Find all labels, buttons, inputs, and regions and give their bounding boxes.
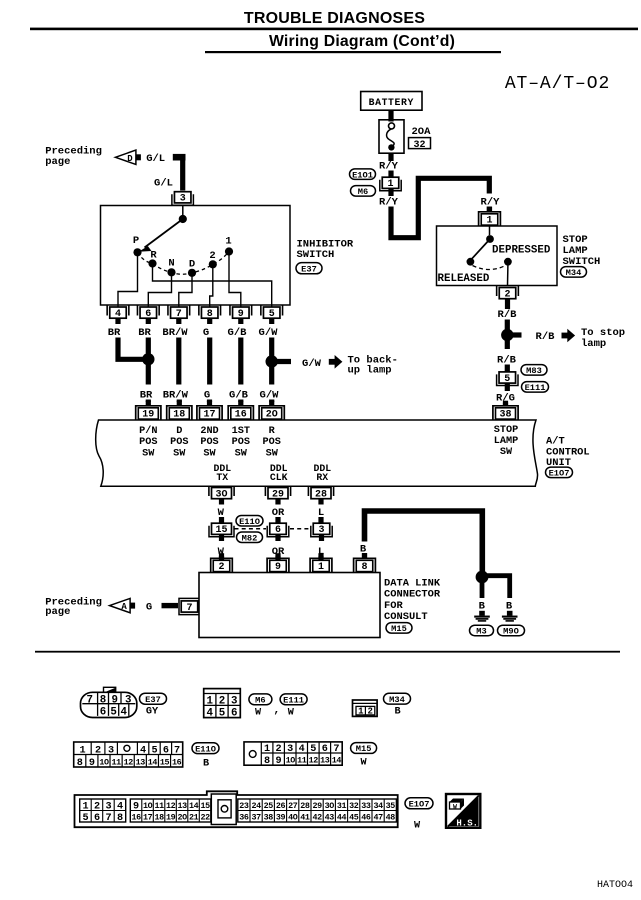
svg-text:SW: SW bbox=[235, 448, 248, 459]
wire G/L elbow bbox=[173, 154, 186, 191]
connector M15 oval label bbox=[351, 743, 377, 755]
wire junction down bbox=[505, 339, 510, 349]
svg-text:7: 7 bbox=[105, 813, 111, 824]
page arrow A bbox=[110, 598, 136, 612]
connector 1 E101-M6 bbox=[380, 177, 401, 191]
svg-text:3O: 3O bbox=[215, 489, 227, 500]
svg-text:1: 1 bbox=[387, 179, 393, 190]
svg-text:9: 9 bbox=[133, 801, 139, 812]
header rule 1 bbox=[30, 28, 638, 31]
inhibitor switch pin 7 bbox=[168, 306, 190, 325]
inhibitor switch S1 box bbox=[101, 206, 291, 306]
inhibitor switch pin 4 bbox=[107, 306, 129, 325]
svg-text:29: 29 bbox=[272, 489, 284, 500]
svg-text:35: 35 bbox=[386, 801, 396, 811]
svg-text:W: W bbox=[414, 821, 421, 832]
wire 1 contact to pin 9 bbox=[229, 252, 241, 308]
svg-text:21: 21 bbox=[189, 812, 199, 822]
svg-text:42: 42 bbox=[312, 812, 322, 822]
svg-text:31: 31 bbox=[337, 801, 347, 811]
svg-text:M15: M15 bbox=[391, 624, 407, 634]
svg-text:11: 11 bbox=[154, 801, 164, 811]
labels W , W bbox=[255, 705, 295, 719]
wire label L bbox=[318, 507, 324, 519]
svg-text:22: 22 bbox=[200, 812, 210, 822]
page code AT-A/T-02 bbox=[505, 74, 610, 94]
svg-text:M83: M83 bbox=[526, 366, 542, 376]
svg-text:1: 1 bbox=[318, 562, 324, 573]
svg-text:25: 25 bbox=[264, 801, 274, 811]
wire labels BR BR/W G G/B G/W row 2 bbox=[140, 390, 279, 402]
position travel arc dashed bbox=[138, 252, 230, 275]
wire pin 9 G/B down bbox=[238, 338, 243, 385]
svg-text:32: 32 bbox=[349, 801, 359, 811]
A/T control unit pin 29 bbox=[265, 486, 290, 505]
svg-text:2: 2 bbox=[219, 696, 225, 708]
svg-text:2OA: 2OA bbox=[412, 126, 432, 138]
arrow to stop lamp bbox=[562, 329, 576, 343]
label INHIBITOR SWITCH bbox=[297, 239, 354, 261]
svg-text:19: 19 bbox=[166, 812, 176, 822]
svg-text:48: 48 bbox=[386, 812, 396, 822]
wire pin 6 BR down bbox=[146, 338, 151, 385]
A/T control unit pin 18 bbox=[167, 401, 192, 421]
fuse label 20A bbox=[412, 126, 432, 138]
svg-text:1O: 1O bbox=[143, 801, 153, 811]
svg-text:4: 4 bbox=[140, 746, 146, 757]
wire pin 1 to common contact bbox=[489, 226, 491, 235]
svg-text:TROUBLE DIAGNOSES: TROUBLE DIAGNOSES bbox=[244, 10, 425, 27]
svg-text:M3: M3 bbox=[476, 627, 486, 637]
header subtitle Wiring Diagram (Contd) bbox=[269, 33, 455, 50]
svg-text:5: 5 bbox=[269, 309, 275, 320]
wire label B bbox=[360, 543, 367, 555]
svg-text:POS: POS bbox=[232, 437, 250, 448]
wire label OR bbox=[272, 546, 285, 558]
svg-text:5: 5 bbox=[82, 813, 88, 824]
svg-text:N: N bbox=[168, 258, 174, 270]
svg-text:39: 39 bbox=[276, 812, 286, 822]
svg-text:43: 43 bbox=[325, 812, 335, 822]
wire label R/B bbox=[536, 331, 556, 343]
wire pin 7 BR/W down bbox=[176, 338, 181, 385]
svg-text:12: 12 bbox=[124, 757, 134, 767]
connector E111 oval label bbox=[280, 694, 307, 706]
svg-text:38: 38 bbox=[264, 812, 274, 822]
svg-text:12: 12 bbox=[166, 801, 176, 811]
connector M3 oval bbox=[470, 625, 494, 636]
wire battery to fuse bbox=[388, 110, 393, 121]
connector E107 oval label bbox=[405, 798, 433, 810]
section separator rule bbox=[35, 651, 620, 653]
svg-text:G: G bbox=[203, 327, 209, 339]
stop lamp switch arm bbox=[471, 239, 490, 260]
svg-text:A: A bbox=[121, 602, 127, 612]
svg-text:23: 23 bbox=[239, 801, 249, 811]
svg-text:3: 3 bbox=[105, 801, 111, 812]
wire label W bbox=[218, 546, 225, 558]
svg-text:1O: 1O bbox=[286, 756, 296, 766]
svg-text:28: 28 bbox=[300, 801, 310, 811]
wire pin 4 BR to junction bbox=[118, 338, 145, 360]
wire fuse to R/Y bbox=[388, 153, 393, 161]
svg-text:1: 1 bbox=[82, 801, 88, 812]
wire battery feed to stop lamp switch bbox=[391, 178, 489, 237]
svg-text:8: 8 bbox=[207, 309, 213, 320]
position contacts dots bbox=[133, 247, 233, 277]
svg-text:14: 14 bbox=[189, 801, 199, 811]
data link connector pin 7 bbox=[179, 598, 199, 614]
svg-text:36: 36 bbox=[239, 812, 249, 822]
junction node BR bbox=[142, 353, 154, 365]
label A/T CONTROL UNIT bbox=[546, 436, 590, 469]
svg-text:9: 9 bbox=[275, 562, 281, 573]
svg-text:15: 15 bbox=[215, 525, 227, 536]
svg-text:8: 8 bbox=[100, 695, 106, 707]
label DATA LINK CONNECTOR FOR CONSULT bbox=[384, 577, 441, 623]
svg-text:6: 6 bbox=[100, 707, 106, 719]
svg-text:6: 6 bbox=[275, 525, 281, 536]
svg-text:BR: BR bbox=[138, 327, 151, 339]
wire R/G to pin 38 bbox=[503, 403, 508, 407]
svg-text:1: 1 bbox=[225, 236, 231, 248]
svg-text:15: 15 bbox=[200, 801, 210, 811]
svg-text:BR/W: BR/W bbox=[162, 327, 188, 339]
A/T control unit pin 28 bbox=[308, 486, 333, 505]
svg-text:W: W bbox=[453, 803, 457, 810]
svg-text:P: P bbox=[133, 235, 139, 247]
svg-text:46: 46 bbox=[361, 812, 371, 822]
junction node stop lamp feed bbox=[501, 329, 513, 341]
svg-text:2: 2 bbox=[95, 746, 101, 757]
wire R/B to junction bbox=[505, 320, 510, 332]
wire label R/Y bbox=[379, 161, 399, 173]
svg-text:SW: SW bbox=[266, 448, 279, 459]
connector E110 oval label bbox=[192, 743, 219, 755]
data link connector pin 2 bbox=[211, 553, 233, 573]
connector M83 oval bbox=[521, 365, 547, 376]
svg-text:1O: 1O bbox=[99, 757, 109, 767]
wire R contact to pin 5 bbox=[153, 264, 272, 308]
svg-text:M34: M34 bbox=[566, 268, 582, 278]
connector E107 oval bbox=[546, 467, 573, 478]
svg-text:SW: SW bbox=[203, 448, 216, 459]
fuse F1 20A 32 bbox=[379, 120, 404, 153]
A/T control unit pin 20 bbox=[259, 401, 284, 421]
svg-text:2: 2 bbox=[218, 562, 224, 573]
svg-text:,: , bbox=[273, 705, 280, 717]
svg-text:H.S.: H.S. bbox=[456, 818, 478, 828]
wire stubs to DLC pins bbox=[222, 556, 322, 560]
svg-text:R: R bbox=[269, 426, 276, 437]
svg-text:DATA LINK: DATA LINK bbox=[384, 577, 441, 589]
svg-text:41: 41 bbox=[300, 812, 310, 822]
data link connector pin 9 bbox=[267, 553, 289, 573]
connector E37 oval label bbox=[140, 693, 167, 705]
inhibitor switch pin 8 bbox=[199, 306, 221, 325]
svg-text:SWITCH: SWITCH bbox=[297, 249, 335, 261]
joint dashed 6 to 3 bbox=[235, 528, 311, 530]
svg-text:3O: 3O bbox=[325, 801, 335, 811]
label W bbox=[361, 758, 368, 769]
svg-text:STOP: STOP bbox=[494, 425, 518, 436]
wire junction down bbox=[480, 581, 485, 598]
svg-text:E11O: E11O bbox=[195, 744, 216, 754]
junction node G/W bbox=[266, 355, 278, 367]
connector E111 oval bbox=[522, 382, 549, 393]
wire P contact to pin 4 bbox=[118, 252, 138, 307]
label GY bbox=[146, 707, 159, 718]
label STOP LAMP SW bbox=[494, 425, 518, 458]
wire stub to stop lamp bbox=[507, 332, 521, 337]
svg-text:DEPRESSED: DEPRESSED bbox=[492, 244, 551, 256]
wire pin 3 to pivot bbox=[182, 206, 184, 217]
svg-text:9: 9 bbox=[238, 309, 244, 320]
svg-text:E37: E37 bbox=[145, 695, 161, 705]
svg-text:E1O1: E1O1 bbox=[352, 170, 373, 180]
svg-text:G: G bbox=[146, 602, 152, 614]
svg-text:47: 47 bbox=[373, 812, 383, 822]
svg-text:B: B bbox=[479, 600, 486, 612]
svg-text:44: 44 bbox=[337, 812, 347, 822]
ground M90 bbox=[502, 611, 518, 621]
stop lamp switch S2 box bbox=[437, 226, 558, 286]
svg-text:6: 6 bbox=[94, 813, 100, 824]
svg-text:G/W: G/W bbox=[302, 358, 322, 370]
A/T control unit pin 16 bbox=[228, 401, 253, 421]
svg-text:W: W bbox=[255, 708, 262, 719]
svg-text:3: 3 bbox=[231, 696, 237, 708]
svg-text:2: 2 bbox=[367, 707, 372, 717]
wire D contact to pin 7 bbox=[179, 273, 192, 307]
svg-text:2O: 2O bbox=[266, 410, 278, 421]
label B bbox=[203, 758, 209, 769]
svg-text:8: 8 bbox=[77, 758, 83, 769]
wire connector 5 down bbox=[505, 383, 510, 391]
svg-text:POS: POS bbox=[200, 437, 218, 448]
wire label G/W bbox=[302, 358, 322, 370]
connector 3 E110-M82 bbox=[311, 523, 332, 537]
svg-text:5: 5 bbox=[110, 707, 116, 719]
wire label B right ground bbox=[506, 600, 513, 612]
svg-text:5: 5 bbox=[151, 746, 157, 757]
svg-text:14: 14 bbox=[332, 756, 342, 766]
svg-text:7: 7 bbox=[333, 744, 339, 755]
svg-text:6: 6 bbox=[231, 708, 237, 720]
svg-text:8: 8 bbox=[117, 813, 123, 824]
svg-text:16: 16 bbox=[131, 812, 141, 822]
wire stub to A/T control unit bbox=[177, 400, 182, 403]
connector 6 E110-M82 bbox=[267, 523, 289, 537]
wire stub to A/T control unit bbox=[238, 400, 243, 403]
svg-text:AT–A/T–O2: AT–A/T–O2 bbox=[505, 74, 610, 94]
svg-text:5: 5 bbox=[504, 374, 510, 385]
wire stub to DLC pin 7 bbox=[162, 603, 179, 608]
connector face M6/E111 bbox=[204, 689, 241, 720]
data link connector pin 1 bbox=[310, 553, 332, 573]
released contact bbox=[467, 258, 475, 266]
label Preceding page (bottom) bbox=[45, 597, 102, 619]
depressed contact bbox=[504, 258, 512, 266]
connector face E110 bbox=[74, 742, 183, 769]
A/T control unit pin 17 bbox=[197, 401, 222, 421]
stop lamp switch pin 1 bbox=[479, 207, 501, 227]
svg-text:3: 3 bbox=[125, 695, 131, 707]
wire R/Y to stop lamp switch pin 1 bbox=[487, 207, 492, 212]
svg-text:CONNECTOR: CONNECTOR bbox=[384, 589, 441, 601]
svg-text:18: 18 bbox=[173, 410, 185, 421]
svg-text:W: W bbox=[288, 708, 295, 719]
position labels P R N D 2 1 bbox=[133, 235, 232, 271]
wire pin 2 down bbox=[505, 305, 510, 310]
A/T control unit pin 38 bbox=[493, 401, 518, 421]
connector M6 oval bbox=[351, 186, 376, 197]
wire pin 5 G/W down bbox=[269, 338, 274, 385]
wire label W bbox=[218, 507, 225, 519]
svg-text:27: 27 bbox=[288, 801, 298, 811]
svg-text:CLK: CLK bbox=[270, 472, 288, 483]
connector 15 E110-M82 bbox=[209, 523, 234, 537]
svg-text:3: 3 bbox=[287, 744, 293, 755]
svg-text:FOR: FOR bbox=[384, 600, 403, 612]
svg-text:M6: M6 bbox=[358, 187, 368, 197]
labels P/N POS SW etc bbox=[139, 425, 281, 459]
travel arc dashed bbox=[473, 266, 506, 270]
svg-text:3: 3 bbox=[180, 194, 186, 205]
svg-text:M6: M6 bbox=[255, 696, 265, 706]
wire stub to back-up lamp bbox=[272, 359, 291, 364]
svg-text:32: 32 bbox=[413, 140, 425, 151]
label To back-up lamp bbox=[348, 354, 398, 376]
wire label OR bbox=[272, 507, 285, 519]
wire stub to A/T control unit bbox=[269, 400, 274, 403]
label Preceding page (top) bbox=[45, 145, 102, 168]
svg-text:12: 12 bbox=[309, 756, 319, 766]
svg-text:38: 38 bbox=[499, 410, 511, 421]
svg-text:5: 5 bbox=[310, 744, 316, 755]
connector E101 oval bbox=[350, 169, 376, 180]
wire R/Y to connector 1 bbox=[388, 171, 393, 179]
connector M34 oval bbox=[561, 267, 587, 278]
svg-text:13: 13 bbox=[320, 756, 330, 766]
svg-text:4: 4 bbox=[120, 707, 127, 719]
wire label B left ground bbox=[479, 600, 486, 612]
connector M6 oval label bbox=[249, 694, 272, 706]
label RELEASED bbox=[438, 273, 490, 285]
connector face E107 (A/T control unit) bbox=[75, 791, 398, 827]
wire label G/L bbox=[146, 153, 165, 165]
connector M15 oval bbox=[386, 623, 412, 634]
svg-text:6: 6 bbox=[145, 309, 151, 320]
svg-text:page: page bbox=[45, 606, 70, 618]
svg-text:13: 13 bbox=[177, 801, 187, 811]
wire 2 contact to pin 8 bbox=[210, 264, 213, 307]
svg-text:D: D bbox=[176, 426, 182, 437]
svg-text:5: 5 bbox=[219, 708, 225, 720]
svg-text:M9O: M9O bbox=[503, 627, 519, 637]
svg-text:RELEASED: RELEASED bbox=[438, 273, 490, 285]
wire label G/L bbox=[154, 177, 173, 189]
svg-text:16: 16 bbox=[172, 757, 182, 767]
data link connector box bbox=[199, 573, 380, 638]
wire junction branch right bbox=[482, 576, 510, 598]
footer code HAT004 bbox=[597, 880, 633, 891]
header rule 2 bbox=[205, 51, 501, 53]
svg-text:E11O: E11O bbox=[239, 517, 260, 527]
svg-text:2O: 2O bbox=[177, 812, 187, 822]
connector face E37 (inhibitor switch) bbox=[81, 687, 137, 718]
svg-text:7: 7 bbox=[186, 603, 192, 614]
svg-text:E37: E37 bbox=[301, 265, 317, 275]
svg-text:E1O7: E1O7 bbox=[549, 468, 570, 478]
svg-text:D: D bbox=[127, 154, 133, 164]
svg-text:8: 8 bbox=[361, 562, 367, 573]
svg-text:13: 13 bbox=[136, 757, 146, 767]
svg-text:16: 16 bbox=[235, 410, 247, 421]
svg-text:17: 17 bbox=[143, 812, 153, 822]
svg-text:11: 11 bbox=[111, 757, 121, 767]
wire stubs 30-15 29-6 28-3 bbox=[222, 517, 322, 523]
inhibitor switch pin 9 bbox=[230, 306, 252, 325]
svg-text:1: 1 bbox=[264, 744, 270, 755]
svg-text:3: 3 bbox=[108, 746, 114, 757]
svg-text:BATTERY: BATTERY bbox=[369, 97, 414, 108]
svg-text:R/B: R/B bbox=[498, 309, 518, 321]
svg-text:G/B: G/B bbox=[228, 327, 248, 339]
connector 3 inhibitor feed bbox=[172, 192, 194, 206]
svg-text:BR: BR bbox=[108, 327, 121, 339]
svg-text:1: 1 bbox=[79, 746, 85, 757]
svg-text:R/B: R/B bbox=[536, 331, 556, 343]
ground M3 bbox=[474, 611, 490, 621]
connector 5 M83-E111 bbox=[497, 372, 518, 386]
svg-text:B: B bbox=[203, 758, 209, 769]
wire label R/B bbox=[498, 309, 518, 321]
battery B1 bbox=[361, 92, 422, 111]
svg-text:33: 33 bbox=[361, 801, 371, 811]
inhibitor switch pin 5 bbox=[261, 306, 283, 325]
data link connector pin 8 bbox=[354, 553, 376, 573]
svg-text:page: page bbox=[45, 156, 70, 168]
svg-text:28: 28 bbox=[315, 489, 327, 500]
wire label L bbox=[318, 546, 324, 558]
wire label R/Y bbox=[481, 197, 501, 209]
svg-text:3: 3 bbox=[318, 525, 324, 536]
svg-text:14: 14 bbox=[148, 757, 158, 767]
connector E110 oval bbox=[236, 516, 263, 527]
wire label R/B bbox=[497, 355, 517, 367]
svg-text:15: 15 bbox=[160, 757, 170, 767]
svg-text:29: 29 bbox=[312, 801, 322, 811]
inhibitor pivot contact bbox=[179, 215, 187, 223]
page arrow D bbox=[115, 150, 140, 164]
svg-text:B: B bbox=[506, 600, 513, 612]
inhibitor switch pin 6 bbox=[137, 306, 159, 325]
wire label R/G bbox=[496, 393, 515, 405]
svg-text:P/N: P/N bbox=[139, 425, 157, 437]
svg-text:9: 9 bbox=[89, 758, 95, 769]
svg-text:45: 45 bbox=[349, 812, 359, 822]
svg-text:2: 2 bbox=[504, 289, 510, 300]
svg-text:M15: M15 bbox=[356, 744, 372, 754]
connector M90 oval bbox=[498, 625, 525, 636]
svg-text:7: 7 bbox=[174, 746, 180, 757]
svg-text:17: 17 bbox=[203, 410, 215, 421]
svg-text:E111: E111 bbox=[525, 383, 546, 393]
connector M34 oval label bbox=[384, 693, 411, 705]
svg-text:4: 4 bbox=[117, 801, 123, 812]
label DEPRESSED bbox=[492, 244, 551, 256]
